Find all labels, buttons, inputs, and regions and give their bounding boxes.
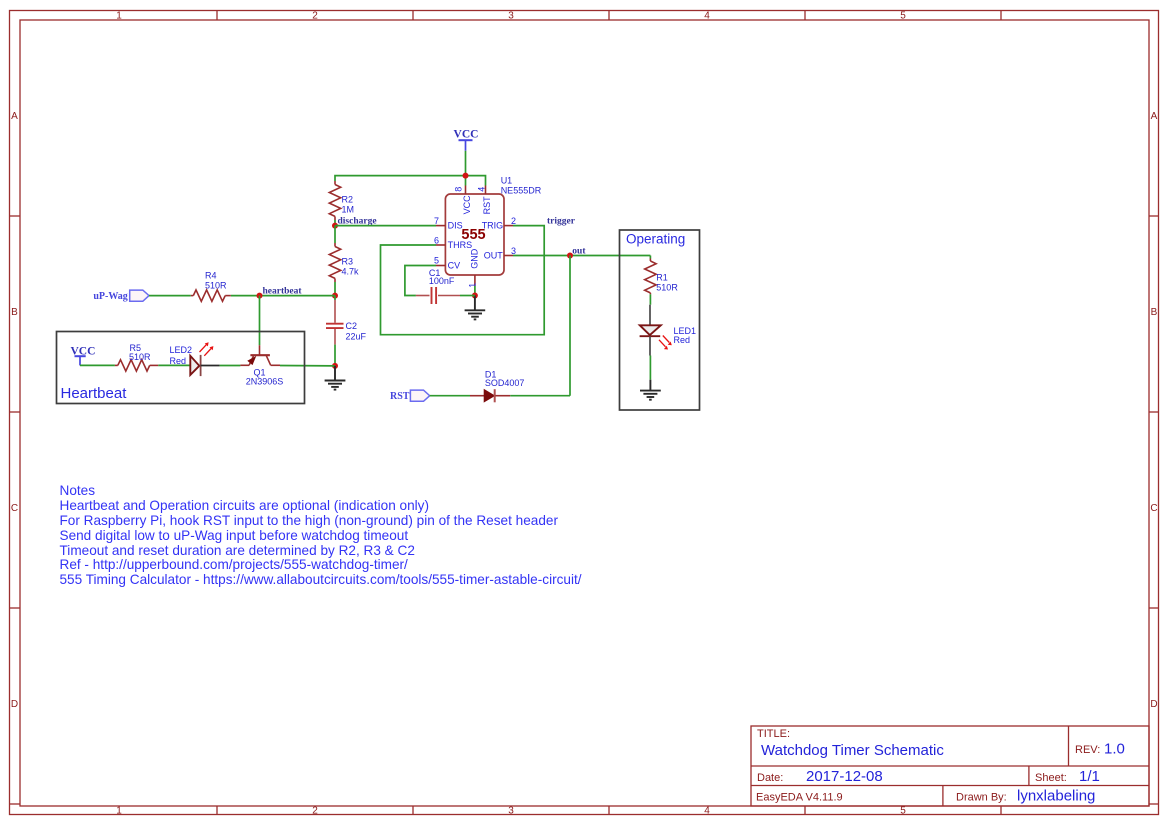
svg-text:4: 4 xyxy=(704,11,710,22)
svg-text:D: D xyxy=(11,699,18,710)
svg-text:1/1: 1/1 xyxy=(1079,768,1100,785)
svg-text:1: 1 xyxy=(467,283,477,288)
svg-text:4: 4 xyxy=(704,806,710,817)
svg-text:D: D xyxy=(1150,699,1157,710)
svg-text:Heartbeat: Heartbeat xyxy=(61,385,128,402)
junction pin1/C1 xyxy=(472,293,478,299)
wire LED2 cathode (black lead) xyxy=(201,365,220,367)
pin 2 TRIG xyxy=(482,216,516,230)
svg-text:510R: 510R xyxy=(205,280,227,290)
svg-text:8: 8 xyxy=(454,187,464,192)
wire discharge to DIS pin7 xyxy=(335,225,436,227)
svg-text:OUT: OUT xyxy=(484,250,504,260)
wire VCC horizontal to R2 xyxy=(335,176,466,181)
svg-text:R3: R3 xyxy=(342,257,354,267)
resistor R4 xyxy=(191,271,231,302)
ground (operating) xyxy=(640,380,661,400)
svg-text:TITLE:: TITLE: xyxy=(757,728,790,740)
svg-text:2017-12-08: 2017-12-08 xyxy=(806,768,883,785)
wire R1 to LED1 xyxy=(649,294,651,304)
wire VCC to pin4 xyxy=(466,176,486,186)
svg-text:C2: C2 xyxy=(346,321,358,331)
svg-text:510R: 510R xyxy=(656,282,678,292)
svg-text:C: C xyxy=(11,503,18,514)
diode D1 SOD4007 xyxy=(470,369,524,402)
svg-text:Operating: Operating xyxy=(626,232,685,247)
wire pin1 to gnd junction xyxy=(474,286,476,296)
capacitor C2 xyxy=(326,296,367,345)
pin 4 RST xyxy=(476,186,492,215)
svg-text:GND: GND xyxy=(470,248,480,269)
svg-text:6: 6 xyxy=(434,235,439,245)
wire RST to D1 xyxy=(430,395,470,397)
LED LED1 Red xyxy=(640,305,696,356)
svg-text:100nF: 100nF xyxy=(429,276,455,286)
wire heartbeat down to Q1 base xyxy=(259,296,261,346)
pin 1 GND xyxy=(467,248,479,288)
port RST xyxy=(390,390,430,402)
resistor R5 xyxy=(115,343,158,371)
svg-text:REV:: REV: xyxy=(1075,744,1100,756)
resistor R1 xyxy=(645,259,679,295)
svg-text:out: out xyxy=(572,247,586,257)
svg-text:heartbeat: heartbeat xyxy=(263,287,303,297)
svg-text:Drawn By:: Drawn By: xyxy=(956,792,1007,804)
svg-text:Timeout and reset duration are: Timeout and reset duration are determine… xyxy=(60,543,415,558)
svg-text:TRIG: TRIG xyxy=(482,220,504,230)
svg-text:Notes: Notes xyxy=(60,483,96,498)
junction heartbeat xyxy=(257,293,263,299)
svg-text:U1: U1 xyxy=(501,176,513,186)
pin 8 VCC xyxy=(454,186,473,215)
wire C1 to gnd junction xyxy=(460,295,475,297)
svg-text:Date:: Date: xyxy=(757,772,783,784)
box Operating xyxy=(620,230,700,410)
svg-text:1: 1 xyxy=(116,806,122,817)
svg-text:22uF: 22uF xyxy=(346,332,367,342)
power flag VCC (top) xyxy=(454,129,479,151)
svg-text:4: 4 xyxy=(476,187,486,192)
pin 5 CV xyxy=(434,255,460,270)
svg-text:NE555DR: NE555DR xyxy=(501,186,542,196)
svg-text:555 Timing Calculator - https:: 555 Timing Calculator - https://www.alla… xyxy=(60,572,582,587)
svg-text:2: 2 xyxy=(312,806,318,817)
svg-text:B: B xyxy=(11,307,18,318)
resistor R2 xyxy=(329,181,354,220)
SCHEMATIC xyxy=(57,129,700,411)
wire LED2 to Q1 emitter xyxy=(220,365,241,367)
svg-text:R1: R1 xyxy=(656,273,668,283)
svg-text:510R: 510R xyxy=(129,352,151,362)
svg-text:2: 2 xyxy=(511,216,516,226)
svg-text:lynxlabeling: lynxlabeling xyxy=(1017,788,1095,805)
svg-text:EasyEDA V4.11.9: EasyEDA V4.11.9 xyxy=(756,792,843,804)
wire C2 to ground node xyxy=(334,345,336,366)
wire R2 to discharge node xyxy=(334,220,336,226)
svg-text:5: 5 xyxy=(434,255,439,265)
junction VCC node xyxy=(463,173,469,179)
wire CV loop xyxy=(405,266,436,296)
wire operating down from entry xyxy=(649,256,651,259)
svg-text:Ref - http://upperbound.com/pr: Ref - http://upperbound.com/projects/555… xyxy=(60,557,409,572)
wire out down to D1 row xyxy=(569,256,571,396)
svg-text:B: B xyxy=(1151,307,1158,318)
capacitor C1 xyxy=(416,268,460,304)
power flag VCC (heartbeat) xyxy=(71,346,96,366)
pin 7 DIS xyxy=(434,216,463,230)
svg-text:R4: R4 xyxy=(205,271,217,281)
svg-text:Heartbeat and Operation circui: Heartbeat and Operation circuits are opt… xyxy=(60,498,430,513)
NOTES xyxy=(60,483,582,587)
svg-text:SOD4007: SOD4007 xyxy=(485,378,525,388)
junction R3/C2 xyxy=(332,293,338,299)
svg-text:Red: Red xyxy=(674,335,691,345)
wire LED1 to gnd xyxy=(649,356,651,380)
wire uP-Wag to R4 xyxy=(149,295,191,297)
svg-text:5: 5 xyxy=(900,11,906,22)
svg-text:A: A xyxy=(11,111,18,122)
svg-text:For Raspberry Pi, hook RST inp: For Raspberry Pi, hook RST input to the … xyxy=(60,513,559,528)
svg-text:7: 7 xyxy=(434,216,439,226)
svg-text:3: 3 xyxy=(508,11,514,22)
box Heartbeat xyxy=(57,332,305,404)
ground (below 555 pin1) xyxy=(465,296,486,320)
wire Q1 collector to C2 node xyxy=(280,365,335,367)
svg-text:Send digital low to uP-Wag inp: Send digital low to uP-Wag input before … xyxy=(60,528,409,543)
pin 6 THRS xyxy=(434,235,472,250)
svg-text:1.0: 1.0 xyxy=(1104,741,1125,758)
svg-text:2: 2 xyxy=(312,11,318,22)
wire VCC vertical xyxy=(465,151,467,176)
svg-text:Sheet:: Sheet: xyxy=(1035,772,1067,784)
wire R5 to LED2 xyxy=(158,364,189,366)
svg-text:uP-Wag: uP-Wag xyxy=(93,291,127,302)
svg-text:RST: RST xyxy=(390,391,410,402)
svg-text:LED2: LED2 xyxy=(170,345,193,355)
resistor R3 xyxy=(329,243,359,282)
svg-text:trigger: trigger xyxy=(547,217,576,227)
svg-text:THRS: THRS xyxy=(448,240,473,250)
wire heartbeat row to R3 node xyxy=(231,295,335,297)
svg-text:Watchdog Timer Schematic: Watchdog Timer Schematic xyxy=(761,742,944,759)
svg-text:RST: RST xyxy=(482,196,492,215)
svg-text:2N3906S: 2N3906S xyxy=(246,376,284,386)
TITLE BLOCK xyxy=(751,726,1149,806)
wire R3 to heartbeat node xyxy=(334,282,336,296)
wire discharge down to R3 xyxy=(334,226,336,243)
svg-text:3: 3 xyxy=(508,806,514,817)
svg-text:3: 3 xyxy=(511,246,516,256)
svg-text:CV: CV xyxy=(448,260,461,270)
svg-text:1: 1 xyxy=(116,11,122,22)
svg-text:C: C xyxy=(1150,503,1157,514)
svg-text:Red: Red xyxy=(170,356,187,366)
svg-text:A: A xyxy=(1151,111,1158,122)
svg-text:4.7k: 4.7k xyxy=(342,267,360,277)
op-amp/IC U1 NE555DR body xyxy=(445,176,541,276)
svg-text:5: 5 xyxy=(900,806,906,817)
transistor Q1 2N3906S xyxy=(240,345,283,386)
wire VCC to R5 xyxy=(80,364,115,366)
ground (below C2) xyxy=(325,366,346,390)
svg-text:DIS: DIS xyxy=(448,220,463,230)
wire VCC to pin8 xyxy=(465,176,467,186)
junction discharge xyxy=(332,223,338,229)
wire THRS-trigger loop xyxy=(381,226,545,335)
svg-text:VCC: VCC xyxy=(454,129,479,141)
junction C2/gnd xyxy=(332,363,338,369)
LED LED2 Red xyxy=(170,342,214,376)
svg-text:R2: R2 xyxy=(342,195,354,205)
wire OUT to operating xyxy=(513,255,650,257)
port uP-Wag xyxy=(93,290,149,302)
pin 3 OUT xyxy=(484,246,516,260)
svg-text:1M: 1M xyxy=(342,205,355,215)
wire D1 to out net xyxy=(510,395,570,397)
junction out xyxy=(567,253,573,259)
svg-text:VCC: VCC xyxy=(462,195,472,215)
